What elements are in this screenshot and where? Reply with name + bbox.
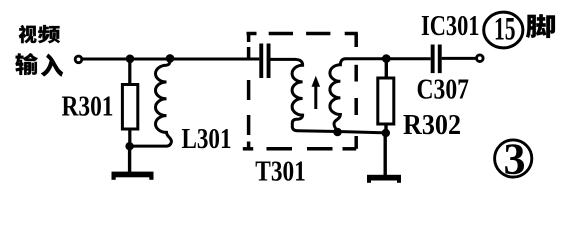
ground (right) xyxy=(384,133,387,175)
svg-text:L301: L301 xyxy=(182,124,232,155)
coupling capacitor inside T301 box xyxy=(259,44,263,79)
input terminal (video in) xyxy=(75,56,82,63)
svg-text:3: 3 xyxy=(504,135,526,184)
svg-text:R302: R302 xyxy=(403,110,461,141)
wire: secondary top to C307 xyxy=(345,57,431,60)
label 脚 (pin) xyxy=(526,14,555,38)
label 输入 (input) xyxy=(15,53,38,75)
wire: transformer bottom xyxy=(297,131,386,133)
node: R301 top junction xyxy=(126,55,135,64)
node: R301/L301 bottom junction xyxy=(125,142,133,150)
label 视频 (video) xyxy=(19,25,37,43)
node: secondary bottom junction xyxy=(333,128,342,137)
svg-text:T301: T301 xyxy=(255,156,305,187)
dashed box of T301 xyxy=(243,34,358,149)
node: R302 top junction xyxy=(382,54,391,63)
output terminal to IC301 pin 15 xyxy=(477,55,484,62)
adjustable core arrow xyxy=(314,84,317,109)
node: R302 bottom junction xyxy=(382,129,390,137)
wire: input terminal to coupling cap xyxy=(82,58,259,61)
resistor R302 xyxy=(385,59,388,78)
figure number circled 3 xyxy=(495,140,532,177)
svg-text:15: 15 xyxy=(494,12,516,48)
pin number 15 in circle xyxy=(484,12,523,48)
svg-text:R301: R301 xyxy=(62,92,114,123)
capacitor C307 xyxy=(431,45,435,74)
inductor L301 xyxy=(130,58,171,146)
svg-text:C307: C307 xyxy=(417,75,470,106)
svg-text:IC301: IC301 xyxy=(421,10,480,42)
ground (left) xyxy=(128,146,131,172)
T301 secondary winding xyxy=(330,59,346,131)
node: L301 top junction xyxy=(166,54,175,63)
resistor R301 xyxy=(128,59,131,85)
T301 primary winding xyxy=(271,59,303,130)
